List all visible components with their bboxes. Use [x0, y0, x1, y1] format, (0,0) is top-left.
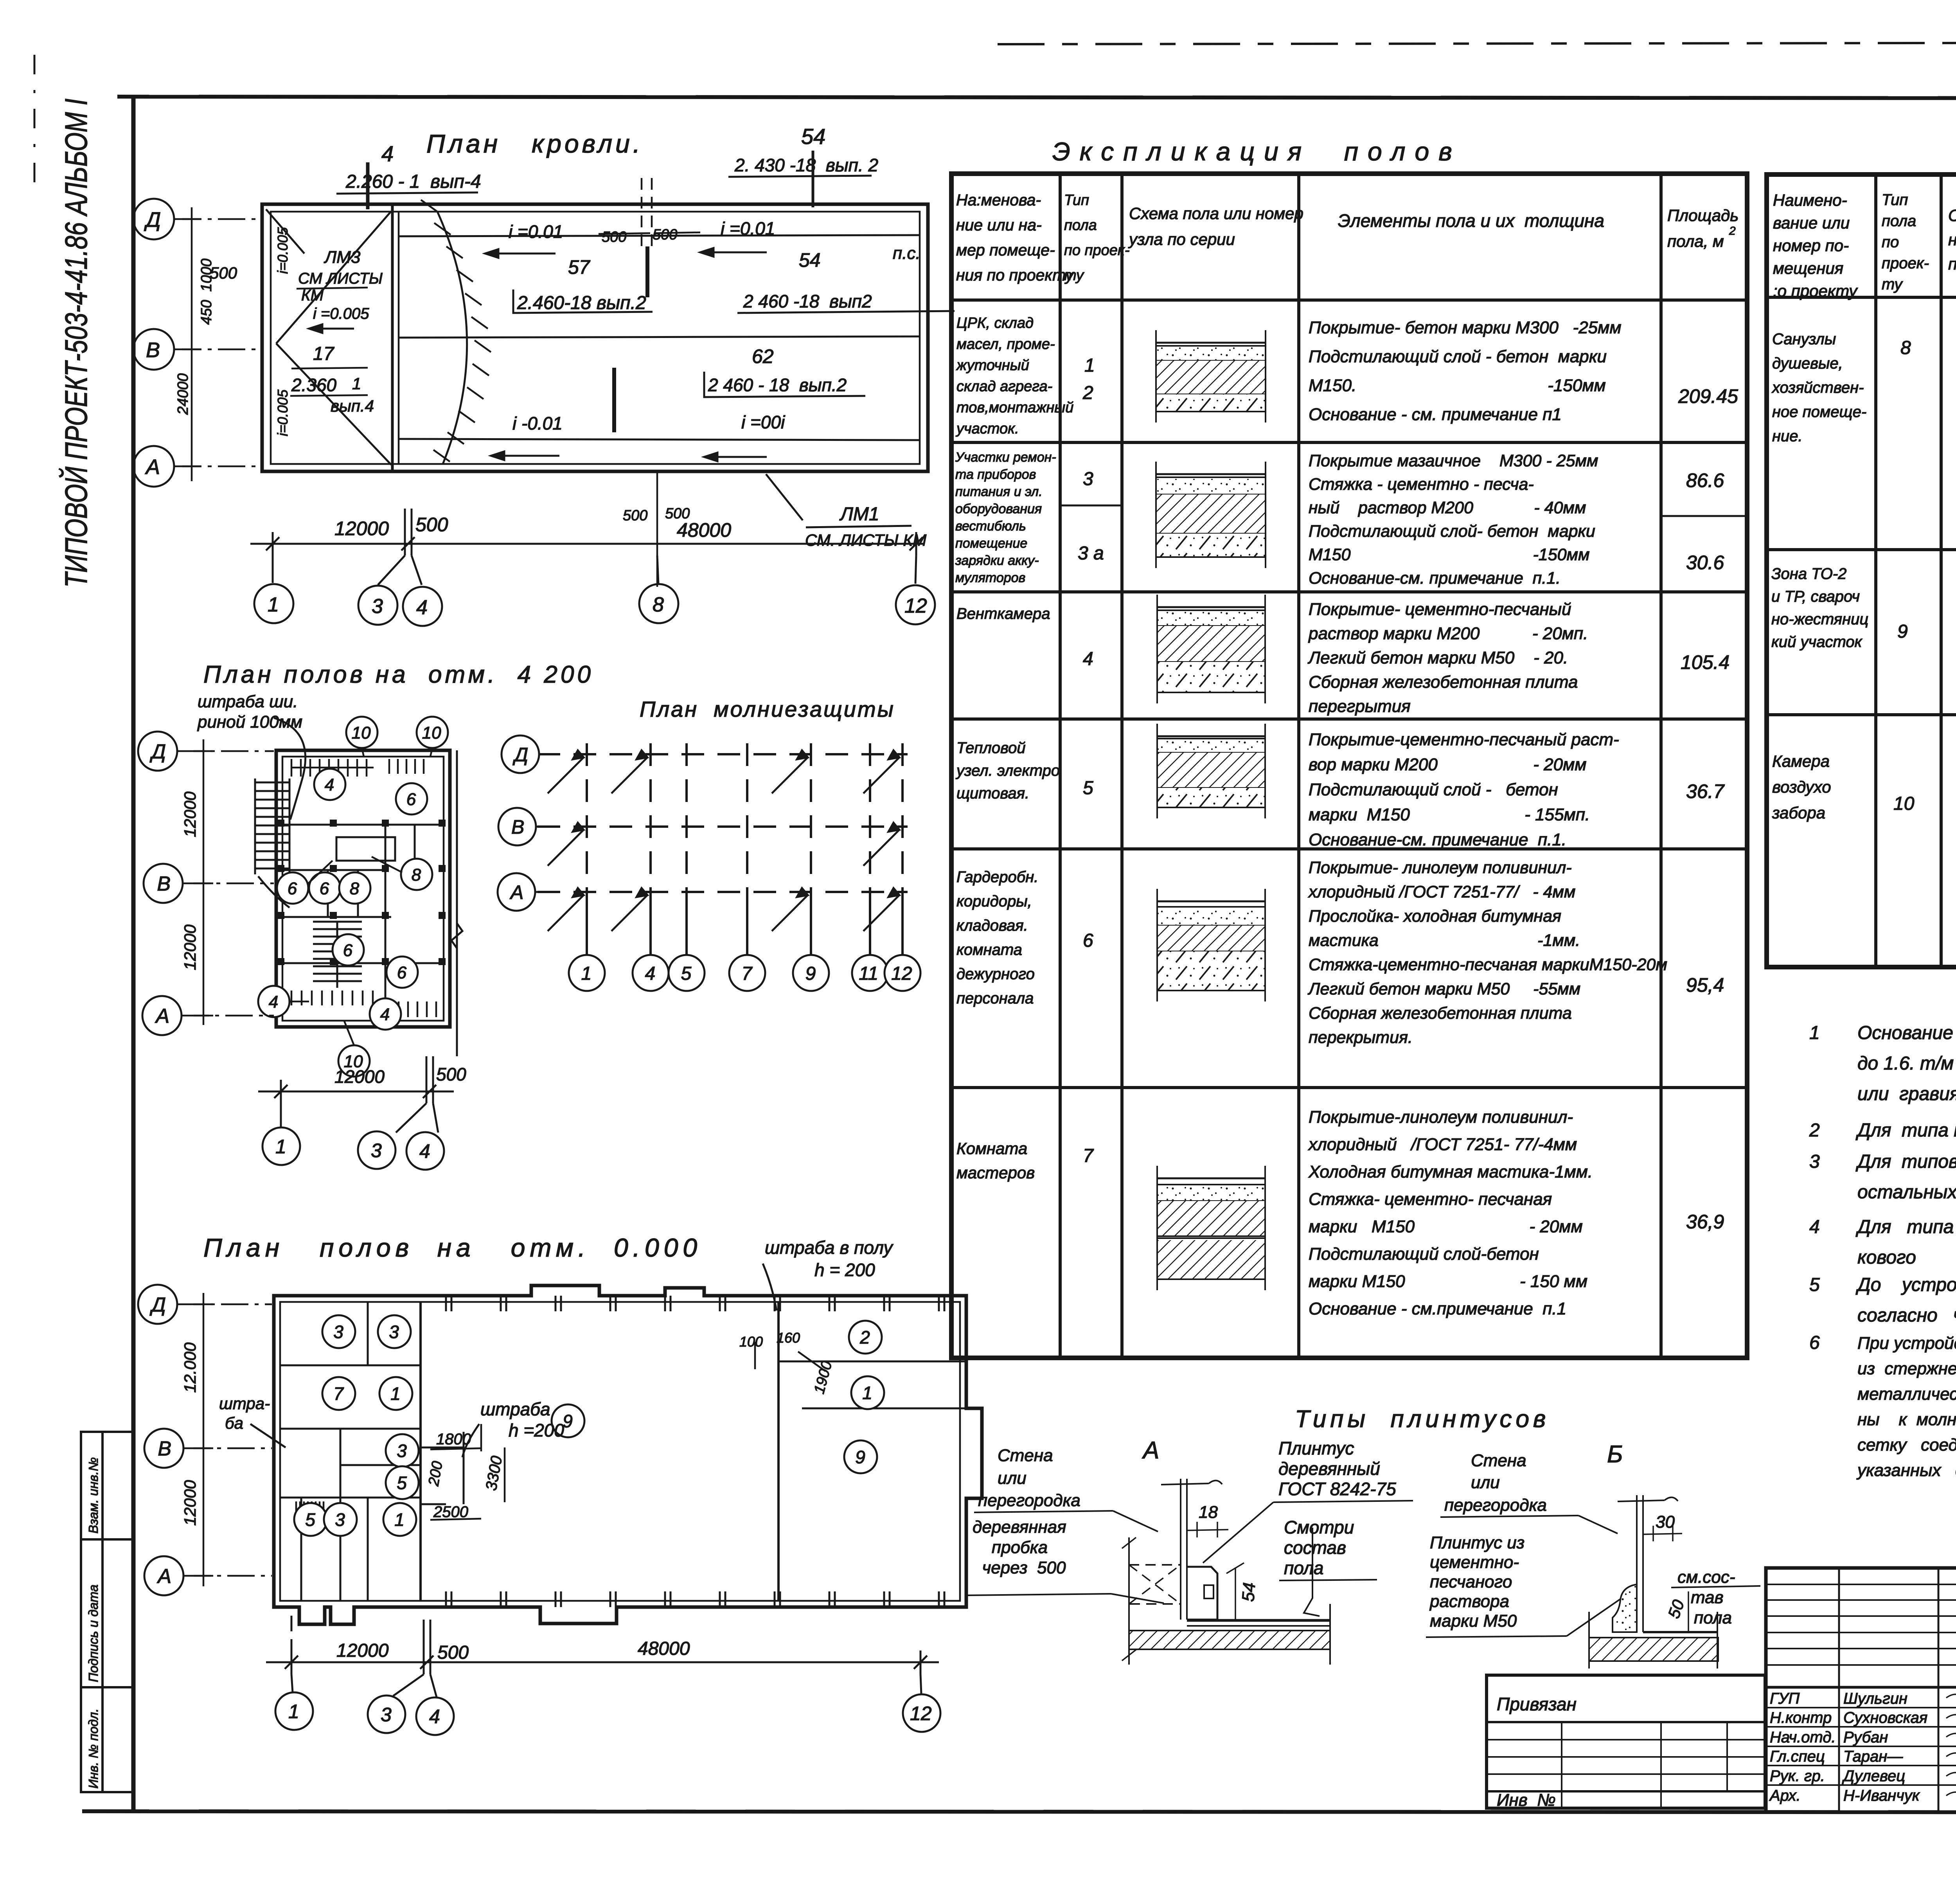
svg-text:Подстилающий слой-бетон: Подстилающий слой-бетон [1309, 1244, 1539, 1264]
svg-text:3: 3 [333, 1322, 343, 1342]
svg-text:Стена: Стена [998, 1446, 1053, 1465]
svg-text:М150: М150 -150мм [1309, 545, 1590, 564]
svg-text:1: 1 [1084, 355, 1095, 376]
svg-text:Участки ремон-: Участки ремон- [955, 450, 1056, 465]
svg-text:6: 6 [343, 941, 353, 960]
plan 0.000 axis bubbles [138, 1285, 177, 1324]
svg-text:i -0.01: i -0.01 [512, 413, 563, 433]
svg-text:4: 4 [325, 775, 334, 795]
svg-text:Д: Д [149, 1294, 166, 1316]
svg-text:Типы плинтусов: Типы плинтусов [1295, 1406, 1550, 1433]
svg-text:пола: пола [1284, 1558, 1323, 1578]
svg-text:Инв. № подл.: Инв. № подл. [86, 1708, 101, 1789]
svg-text:Стяжка-цементно-песчаная марки: Стяжка-цементно-песчаная маркиМ150-20м [1309, 955, 1667, 974]
svg-text:хлоридный /ГОСТ 7251- 77/-4м: хлоридный /ГОСТ 7251- 77/-4мм [1308, 1135, 1577, 1154]
svg-text:6: 6 [406, 790, 416, 809]
svg-text:1: 1 [581, 963, 592, 984]
svg-text:СМ ЛИСТЫ: СМ ЛИСТЫ [298, 270, 383, 287]
svg-text:6: 6 [1809, 1332, 1820, 1353]
svg-text:2: 2 [1809, 1120, 1820, 1141]
svg-text:Покрытие- линолеум поливинил-: Покрытие- линолеум поливинил- [1309, 858, 1572, 877]
svg-text:дежурного: дежурного [956, 965, 1035, 983]
svg-text:деревянная: деревянная [973, 1517, 1066, 1537]
svg-text:жуточный: жуточный [956, 357, 1029, 374]
svg-text:6: 6 [320, 879, 329, 898]
svg-text:Элементы пола и их толщина: Элементы пола и их толщина [1338, 210, 1604, 231]
svg-text:по серии: по серии [1948, 255, 1956, 273]
roof slope lines [399, 235, 920, 236]
svg-text:мер помеще-: мер помеще- [956, 241, 1055, 259]
svg-text:марки М50: марки М50 [1430, 1611, 1517, 1631]
svg-text:участок.: участок. [955, 421, 1019, 437]
svg-text:8: 8 [412, 865, 421, 885]
svg-text:Инв №: Инв № [1497, 1791, 1556, 1810]
svg-text:Сухновская: Сухновская [1843, 1709, 1927, 1726]
svg-text:оборудования: оборудования [955, 502, 1042, 516]
svg-text:штраба в полу: штраба в полу [765, 1237, 894, 1258]
svg-text:кового щебня.: кового щебня. [1857, 1247, 1956, 1268]
svg-text:4: 4 [416, 596, 428, 619]
lightning down-conductor arrows [548, 750, 899, 931]
svg-text:6: 6 [288, 879, 297, 898]
svg-text:Покрытие-линолеум поливинил-: Покрытие-линолеум поливинил- [1309, 1108, 1573, 1127]
svg-text:9: 9 [805, 963, 816, 984]
svg-text:11: 11 [859, 963, 878, 984]
svg-text:Основание - см.примечание п.1: Основание - см.примечание п.1 [1309, 1299, 1566, 1318]
svg-text:сетку соединить с токоотв: сетку соединить с токоотводами в местах … [1857, 1435, 1956, 1455]
svg-text:Б: Б [1607, 1441, 1623, 1468]
svg-text:ное помеще-: ное помеще- [1772, 403, 1866, 421]
svg-text:хлоридный /ГОСТ 7251-77/ - 4: хлоридный /ГОСТ 7251-77/ - 4мм [1308, 883, 1575, 901]
roof plan outline [262, 204, 928, 471]
svg-text:персонала: персонала [956, 990, 1034, 1007]
plinth section A drawing [1122, 1479, 1330, 1665]
svg-text:и ТР, свароч: и ТР, свароч [1771, 588, 1860, 605]
svg-text:1: 1 [352, 374, 361, 393]
svg-text:4: 4 [419, 1140, 430, 1162]
svg-text:раствора: раствора [1429, 1592, 1509, 1611]
svg-text:мастика: мастика -1мм. [1309, 931, 1580, 950]
svg-text:План полов на отм. 0.000: План полов на отм. 0.000 [203, 1233, 702, 1262]
svg-text:Н-Иванчук: Н-Иванчук [1843, 1787, 1920, 1804]
svg-text:62: 62 [752, 345, 774, 367]
svg-text:ние или на-: ние или на- [956, 216, 1042, 234]
plan 0.000 outline [274, 1286, 982, 1624]
svg-text:Рук. гр.: Рук. гр. [1770, 1767, 1825, 1785]
room number bubbles 4.200 [346, 717, 378, 748]
svg-text:А: А [509, 881, 523, 903]
svg-text:комната: комната [956, 941, 1022, 958]
svg-text:5: 5 [681, 963, 692, 984]
svg-text:А: А [1142, 1437, 1159, 1464]
svg-text:36,9: 36,9 [1686, 1211, 1724, 1233]
svg-text:54: 54 [1239, 1582, 1259, 1602]
svg-text:узла по серии: узла по серии [1128, 230, 1235, 248]
svg-text:8: 8 [1900, 338, 1911, 358]
plan 0.000 internal walls [280, 1302, 966, 1601]
svg-text:А: А [155, 1005, 169, 1028]
roof drainage curve [437, 212, 467, 464]
svg-text:М150.: М150. -150мм [1309, 376, 1606, 395]
svg-text:Привязан: Привязан [1497, 1694, 1577, 1714]
svg-text:ту: ту [1064, 267, 1084, 284]
svg-text:Схема пола или номер: Схема пола или номер [1129, 204, 1303, 223]
svg-text:54: 54 [799, 249, 821, 271]
svg-text:2: 2 [859, 1327, 870, 1348]
svg-text:1800: 1800 [436, 1431, 471, 1448]
svg-text:36.7: 36.7 [1686, 780, 1725, 802]
svg-text:В: В [511, 816, 524, 838]
room number bubbles 0.000 [322, 1315, 355, 1348]
svg-text:пола, м: пола, м [1667, 232, 1724, 250]
svg-text:Основание-см. примечание п.1.: Основание-см. примечание п.1. [1309, 830, 1566, 849]
svg-text:В: В [158, 1438, 171, 1460]
svg-text:4: 4 [645, 963, 656, 984]
svg-text:марки М150: марки М150 - 150 мм [1309, 1272, 1587, 1291]
svg-text:2: 2 [1082, 383, 1093, 403]
svg-text:Шульгин: Шульгин [1843, 1690, 1907, 1707]
svg-text:Взам. инв.№: Взам. инв.№ [86, 1457, 101, 1534]
svg-text:Покрытие- бетон марки М300 -: Покрытие- бетон марки М300 -25мм [1309, 318, 1621, 337]
svg-text:Основание - уплотненный грунт: Основание - уплотненный грунт с плотност… [1857, 1023, 1956, 1043]
svg-text:3: 3 [372, 595, 383, 618]
svg-text:цементно-: цементно- [1430, 1553, 1519, 1572]
svg-text:Для типов полов 6 и 7 ти: Для типов полов 6 и 7 тип плинтуса „А” ,… [1855, 1151, 1956, 1172]
svg-text:остальных типов полов - пли: остальных типов полов - плинтус типа „Б”… [1857, 1182, 1956, 1203]
svg-text:ны к молниезащитной сет: ны к молниезащитной сетке . Молниезащитн… [1857, 1410, 1956, 1429]
svg-text:Арх.: Арх. [1769, 1787, 1801, 1804]
svg-text:ЛМ3: ЛМ3 [324, 248, 361, 267]
svg-text:мещения: мещения [1773, 259, 1843, 277]
svg-text:ТИПОВОЙ ПРОЕКТ-503-4-41.86 АЛЬ: ТИПОВОЙ ПРОЕКТ-503-4-41.86 АЛЬБОМ I [58, 99, 93, 588]
svg-text:i =00i: i =00i [741, 412, 786, 432]
plan 4.200 outline [276, 750, 462, 1056]
svg-text:тав: тав [1691, 1588, 1724, 1607]
svg-text:1: 1 [288, 1701, 299, 1722]
svg-text:При устройстве кровли уло: При устройстве кровли уложить молниезащи… [1857, 1334, 1956, 1353]
svg-text:зарядки акку-: зарядки акку- [955, 553, 1039, 568]
svg-text:2500: 2500 [433, 1503, 468, 1521]
svg-text:3: 3 [397, 1441, 407, 1461]
svg-text:щитовая.: щитовая. [956, 785, 1029, 802]
svg-text:17: 17 [313, 343, 335, 364]
svg-text:450 1000: 450 1000 [198, 259, 215, 325]
svg-text:1: 1 [268, 593, 279, 616]
svg-text:Сборная железобетонная плита: Сборная железобетонная плита [1309, 672, 1578, 692]
svg-text:или: или [998, 1469, 1027, 1488]
svg-text:склад агрега-: склад агрега- [956, 378, 1052, 395]
fire-escape ladder [255, 779, 289, 908]
svg-text:Подстилающий слой - бетон мар: Подстилающий слой - бетон марки [1309, 347, 1607, 366]
svg-text:вып.4: вып.4 [331, 397, 374, 415]
svg-text:по: по [1882, 234, 1899, 251]
svg-text:7: 7 [742, 963, 753, 984]
svg-text:209.45: 209.45 [1678, 385, 1738, 407]
svg-text:раствор марки М200 -: раствор марки М200 - 20мп. [1308, 624, 1588, 643]
svg-text:1: 1 [390, 1384, 401, 1404]
svg-text:План полов на отм. 4 200: План полов на отм. 4 200 [203, 661, 594, 688]
svg-text:500: 500 [623, 507, 647, 524]
svg-text:1: 1 [394, 1510, 405, 1530]
svg-text:Дулевец: Дулевец [1842, 1767, 1905, 1785]
svg-text:Санузлы: Санузлы [1772, 331, 1836, 348]
svg-text:12: 12 [910, 1703, 932, 1724]
roof valley diagonals left section [276, 211, 391, 343]
svg-text:Стяжка - цементно - песча-: Стяжка - цементно - песча- [1309, 475, 1534, 494]
svg-text:48000: 48000 [677, 519, 731, 541]
svg-text:500: 500 [653, 227, 677, 243]
svg-text:Легкий бетон марки М50 -55: Легкий бетон марки М50 -55мм [1307, 980, 1580, 998]
svg-text:Для типа пола2 покрытие -: Для типа пола2 покрытие - бетон шлифован… [1855, 1120, 1956, 1141]
svg-text:Покрытие мазаичное М300 - 2: Покрытие мазаичное М300 - 25мм [1309, 451, 1598, 470]
svg-text:2. 430 -18 вып. 2: 2. 430 -18 вып. 2 [734, 155, 878, 175]
svg-text:1: 1 [275, 1136, 286, 1158]
svg-text:марки М150: марки М150 - 20мм [1309, 1217, 1583, 1236]
plan 0.000 bottom dims [266, 1616, 939, 1697]
svg-text:i=0.005: i=0.005 [275, 227, 291, 274]
svg-text:коридоры,: коридоры, [956, 893, 1032, 910]
svg-text:6: 6 [397, 963, 407, 982]
svg-text:п.с.: п.с. [893, 244, 920, 263]
svg-text:Д: Д [144, 208, 161, 232]
svg-text:Таран—: Таран— [1843, 1748, 1903, 1765]
svg-text:питания и эл.: питания и эл. [955, 484, 1043, 499]
svg-text:2 460 -18 вып2: 2 460 -18 вып2 [743, 291, 872, 311]
svg-text:Тип: Тип [1882, 191, 1908, 209]
svg-text:4: 4 [380, 1005, 390, 1024]
svg-text:А: А [156, 1565, 171, 1588]
svg-text:500: 500 [602, 229, 626, 245]
svg-text:Экспликация полов: Экспликация полов [1052, 137, 1462, 166]
svg-text:номер по-: номер по- [1773, 236, 1849, 255]
svg-text:масел, проме-: масел, проме- [956, 336, 1055, 352]
svg-text:Наимено-: Наимено- [1773, 191, 1847, 209]
svg-text:30: 30 [1656, 1512, 1675, 1532]
svg-text:10: 10 [422, 723, 441, 743]
svg-text:12000: 12000 [181, 791, 199, 837]
svg-text:2.460-18 вып.2: 2.460-18 вып.2 [517, 293, 646, 313]
svg-text:500: 500 [437, 1642, 469, 1663]
pinned sub-table (Привязан) [1487, 1675, 1765, 1808]
svg-text:4: 4 [381, 141, 394, 166]
svg-text:Основание - см. примечание п1: Основание - см. примечание п1 [1309, 405, 1562, 424]
svg-text:1: 1 [862, 1383, 872, 1403]
svg-text:пола: пола [1694, 1608, 1732, 1627]
svg-text:кий участок: кий участок [1771, 633, 1863, 651]
svg-text:кладовая.: кладовая. [956, 917, 1028, 934]
svg-text:12000: 12000 [334, 518, 389, 539]
roof labels [210, 218, 786, 433]
svg-text:54: 54 [801, 124, 825, 149]
svg-text:Подстилающий слой- бетон марк: Подстилающий слой- бетон марки [1309, 522, 1595, 541]
svg-text:Холодная битумная мастика-1мм.: Холодная битумная мастика-1мм. [1308, 1162, 1593, 1181]
svg-text:через 500: через 500 [973, 1558, 1066, 1577]
svg-text:5: 5 [1809, 1275, 1820, 1295]
svg-text:вестибюль: вестибюль [955, 519, 1026, 534]
svg-text:риной 100мм: риной 100мм [197, 712, 302, 732]
main title block [1766, 1568, 1956, 1812]
svg-text:согласно чертежам марки: согласно чертежам марки А. [1857, 1305, 1956, 1326]
svg-text:проек-: проек- [1882, 255, 1929, 272]
svg-text:Рубан: Рубан [1843, 1729, 1888, 1746]
svg-text:i =0.01: i =0.01 [721, 218, 775, 239]
svg-text:ный раствор М200: ный раствор М200 - 40мм [1309, 498, 1586, 517]
svg-text:12000: 12000 [336, 1640, 389, 1661]
svg-text:4: 4 [429, 1706, 440, 1728]
svg-text:вание или: вание или [1773, 214, 1850, 232]
svg-text:помещение: помещение [955, 536, 1027, 551]
svg-text:ния по проекту: ния по проекту [956, 266, 1074, 284]
svg-text:i =0.01: i =0.01 [509, 221, 563, 242]
svg-text:86.6: 86.6 [1686, 469, 1724, 491]
svg-text:Основание-см. примечание п.1.: Основание-см. примечание п.1. [1309, 569, 1560, 588]
svg-text:57: 57 [568, 256, 591, 278]
svg-text:мастеров: мастеров [956, 1163, 1035, 1182]
svg-text:105.4: 105.4 [1681, 651, 1729, 673]
svg-text:12000: 12000 [181, 1480, 199, 1526]
svg-text:i =0.005: i =0.005 [313, 305, 369, 322]
expansion joint marks [645, 246, 649, 297]
svg-text:До устройства полов пр: До устройства полов проложить трубопрово… [1855, 1275, 1956, 1295]
svg-text:ЛМ1: ЛМ1 [839, 504, 879, 525]
slope arrows [309, 248, 767, 461]
svg-text:Стяжка- цементно- песчаная: Стяжка- цементно- песчаная [1309, 1190, 1552, 1209]
svg-text:12000: 12000 [181, 924, 199, 970]
svg-text:8: 8 [653, 593, 664, 616]
svg-text:5: 5 [1083, 778, 1093, 798]
svg-text:На:менова-: На:менова- [956, 191, 1041, 209]
svg-text:Нач.отд.: Нач.отд. [1770, 1729, 1836, 1746]
svg-text:5: 5 [305, 1510, 315, 1530]
svg-text:8: 8 [350, 879, 360, 898]
plan 4.200 axis bubbles [138, 732, 177, 771]
svg-text:3: 3 [1809, 1151, 1820, 1172]
svg-text:Легкий бетон марки М50 - 20: Легкий бетон марки М50 - 20. [1307, 648, 1568, 667]
svg-text:перегородка: перегородка [1444, 1496, 1547, 1515]
svg-text:24000: 24000 [175, 373, 191, 415]
svg-text:указанных стрелками: указанных стрелками [1856, 1461, 1956, 1480]
svg-text:48000: 48000 [638, 1638, 690, 1659]
svg-text:Схема пола или: Схема пола или [1948, 206, 1956, 225]
svg-text:воздухо: воздухо [1772, 778, 1831, 796]
svg-text:3 а: 3 а [1078, 543, 1104, 564]
svg-text:7: 7 [1083, 1145, 1094, 1166]
svg-text:3: 3 [1083, 469, 1093, 489]
svg-text:7: 7 [333, 1384, 344, 1404]
svg-text:А: А [145, 455, 160, 479]
curve hatch ticks [421, 200, 491, 462]
svg-text:Плинтус: Плинтус [1278, 1438, 1354, 1458]
svg-text:пола: пола [1882, 212, 1916, 230]
svg-text:Подстилающий слой - бетон: Подстилающий слой - бетон [1309, 780, 1558, 799]
svg-text:12: 12 [891, 963, 912, 984]
svg-text:10: 10 [1893, 793, 1915, 814]
svg-text:Гл.спец: Гл.спец [1770, 1748, 1825, 1765]
svg-text:18: 18 [1199, 1503, 1218, 1522]
svg-text:номер узла: номер узла [1948, 230, 1956, 249]
svg-text:но-жестяниц: но-жестяниц [1771, 611, 1868, 628]
svg-text:9: 9 [1897, 621, 1908, 642]
svg-text:Венткамера: Венткамера [956, 605, 1050, 622]
svg-text:забора: забора [1772, 804, 1825, 822]
svg-text:5: 5 [397, 1473, 407, 1493]
svg-text:вор марки М200: вор марки М200 - 20мм [1309, 755, 1586, 774]
svg-text:ние.: ние. [1772, 428, 1803, 445]
svg-text:Для типа пола 3а - заполн: Для типа пола 3а - заполнитель из извест… [1855, 1217, 1956, 1237]
svg-text:4: 4 [269, 992, 278, 1012]
svg-text:деревянный: деревянный [1278, 1458, 1380, 1479]
svg-text:перегородка: перегородка [978, 1491, 1080, 1510]
svg-text:Смотри: Смотри [1284, 1517, 1354, 1537]
svg-text:95,4: 95,4 [1686, 974, 1724, 996]
stair hatch [313, 922, 362, 988]
svg-text:Тип: Тип [1064, 192, 1089, 209]
svg-text:или гравия крупностью 40-6: или гравия крупностью 40-60 мм. [1857, 1084, 1956, 1104]
svg-text:Покрытие- цементно-песчаный: Покрытие- цементно-песчаный [1309, 600, 1571, 619]
svg-text:Д: Д [149, 741, 166, 763]
svg-text:В: В [146, 338, 160, 362]
svg-text:ба: ба [225, 1414, 243, 1432]
svg-text:состав: состав [1284, 1537, 1346, 1558]
svg-text:Н.контр: Н.контр [1770, 1709, 1832, 1726]
svg-text:по проек-: по проек- [1064, 242, 1130, 259]
svg-text:Стена: Стена [1471, 1451, 1526, 1470]
svg-text:3: 3 [335, 1510, 345, 1530]
svg-text:узел. электро: узел. электро [955, 762, 1060, 779]
lightning grid [538, 743, 908, 955]
svg-text:12: 12 [904, 595, 927, 617]
svg-text:марки М150: марки М150 - 155мп. [1309, 805, 1590, 824]
svg-text:10: 10 [352, 723, 371, 743]
svg-text:3: 3 [371, 1140, 382, 1161]
roof bottom dims [250, 509, 923, 585]
svg-text:Комната: Комната [956, 1139, 1027, 1158]
svg-text:или: или [1471, 1473, 1500, 1492]
svg-text:3: 3 [381, 1704, 392, 1726]
svg-text:ту: ту [1882, 276, 1903, 293]
svg-text:Тепловой: Тепловой [956, 739, 1026, 757]
svg-text:Камера: Камера [1772, 752, 1830, 770]
svg-text:i=0.005: i=0.005 [275, 389, 291, 436]
svg-text:План молниезащиты: План молниезащиты [640, 697, 895, 721]
svg-text:1: 1 [1809, 1023, 1820, 1043]
svg-text:500: 500 [436, 1064, 466, 1084]
svg-text:Подпись и дата: Подпись и дата [86, 1584, 101, 1682]
svg-text:Д: Д [512, 744, 528, 766]
plan 4.200 internal walls [282, 825, 444, 1021]
svg-text:В: В [157, 873, 171, 895]
svg-text:тов,монтажный: тов,монтажный [956, 399, 1073, 416]
svg-text:План кровли.: План кровли. [426, 129, 643, 158]
svg-text:хозяйствен-: хозяйствен- [1771, 379, 1864, 396]
lightning axis bubbles [502, 735, 539, 773]
svg-text:ГУП: ГУП [1770, 1690, 1800, 1707]
svg-text:12.000: 12.000 [181, 1342, 199, 1393]
plan 4.200 bottom dims [258, 1056, 454, 1133]
roof axis bubbles [133, 199, 174, 239]
svg-text:пробка: пробка [973, 1538, 1048, 1557]
svg-text::о проекту: :о проекту [1773, 282, 1858, 300]
svg-text:6: 6 [1083, 930, 1093, 951]
svg-text:металлические устройства до: металлические устройства должны быть при… [1857, 1384, 1956, 1404]
svg-text:160: 160 [777, 1330, 800, 1346]
svg-text:100: 100 [739, 1334, 763, 1350]
svg-text:та приборов: та приборов [955, 467, 1036, 482]
left margin stamp cells [81, 1432, 133, 1792]
svg-text:Гардеробн.: Гардеробн. [956, 868, 1038, 886]
svg-text:Плинтус из: Плинтус из [1430, 1533, 1525, 1552]
svg-text:Покрытие-цементно-песчаный рас: Покрытие-цементно-песчаный раст- [1309, 730, 1619, 749]
